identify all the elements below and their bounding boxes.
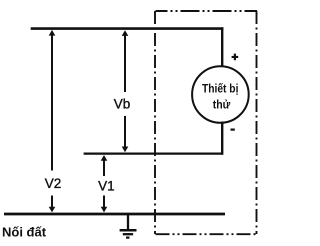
wire: top horizontal conductor <box>31 27 224 30</box>
wire: bottom ground conductor <box>4 213 225 216</box>
svg-text:Thiết bị: Thiết bị <box>202 81 239 95</box>
dimension arrow V1 upper segment with arrowhead at middle wire <box>101 155 108 176</box>
dimension arrow Vb lower segment with arrowhead at middle wire <box>122 116 129 152</box>
dashed enclosure box (phantom line) top edge <box>156 10 258 12</box>
svg-text:thử: thử <box>213 98 231 112</box>
dimension arrow Vb upper segment with arrowhead at top wire <box>122 30 129 92</box>
dashed enclosure box right edge <box>256 11 258 234</box>
ground earth symbol <box>120 215 137 238</box>
wire: middle horizontal conductor <box>84 152 223 154</box>
svg-text:V1: V1 <box>98 179 115 194</box>
dimension arrow V2 lower segment with arrowhead at bottom wire <box>49 196 56 213</box>
svg-text:V2: V2 <box>45 176 62 191</box>
svg-text:Nối đất: Nối đất <box>2 225 47 240</box>
minus polarity label <box>231 129 235 131</box>
svg-text:Vb: Vb <box>114 97 131 112</box>
device under test circle U1 <box>192 66 249 123</box>
dashed enclosure box bottom edge <box>156 233 258 235</box>
wire: vertical from circle bottom to mid conductor <box>221 122 223 155</box>
dashed enclosure box left edge <box>154 11 156 234</box>
dimension arrow V1 lower segment with arrowhead at bottom wire <box>101 196 108 213</box>
wire: vertical drop from top wire to device circle <box>221 27 223 68</box>
dimension arrow V2 upper segment with arrowhead at top wire <box>49 30 56 171</box>
plus polarity label <box>232 54 239 61</box>
